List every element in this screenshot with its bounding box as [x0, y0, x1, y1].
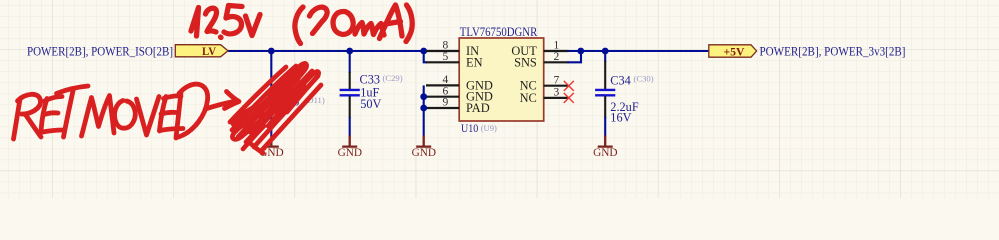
pin 6 GND stub: [426, 96, 459, 98]
svg-text:PAD: PAD: [466, 101, 490, 115]
ground: GND under C33: [338, 136, 363, 160]
svg-text:(C30): (C30): [634, 74, 654, 84]
svg-text:5: 5: [443, 51, 449, 63]
pin name IN: [466, 44, 479, 58]
pin number 5: [443, 51, 449, 63]
port +5V: [709, 44, 757, 58]
wire: SNS tie pin2 up to output net: [568, 51, 582, 62]
pin number 3: [554, 87, 560, 99]
pin name GND (pin 6): [466, 90, 493, 104]
svg-text:7: 7: [554, 74, 560, 86]
label: U10 alt designator (U9): [481, 123, 497, 133]
pin name EN: [466, 55, 483, 69]
wire: branch down to removed diode: [270, 51, 272, 136]
pin name SNS: [514, 55, 537, 69]
annotation: red handwriting 12.5V (70mA): [191, 5, 412, 44]
svg-text:POWER[2B], POWER_ISO[2B]: POWER[2B], POWER_ISO[2B]: [27, 44, 173, 58]
op-amp U10 body: [459, 38, 544, 121]
svg-text:U10: U10: [461, 123, 478, 135]
svg-text:POWER[2B], POWER_3v3[2B]: POWER[2B], POWER_3v3[2B]: [760, 44, 906, 58]
pin name NC (pin 3): [520, 91, 537, 105]
wire: EN tie from node to U10 pin 5: [424, 51, 427, 62]
label: C33 value 1uF: [360, 86, 379, 100]
capacitor C34: [595, 90, 615, 95]
svg-text:GND: GND: [593, 146, 618, 159]
pin: C34 pin stub top: [604, 61, 606, 89]
pin 9 PAD stub: [426, 107, 459, 109]
svg-text:GND: GND: [338, 146, 363, 159]
svg-text:LV: LV: [202, 44, 216, 58]
capacitor C33: [340, 90, 360, 95]
node: junction SNS tie: [577, 48, 584, 55]
svg-text:(U9): (U9): [481, 123, 497, 133]
label: U10 designator: [461, 123, 478, 135]
no-ERC cross on pin 3: [564, 93, 574, 103]
svg-text:3: 3: [554, 87, 560, 99]
pin 8 IN stub: [426, 50, 459, 52]
wire: main input net from port LV to U10 pin 8: [228, 50, 426, 52]
svg-text:C34: C34: [610, 74, 631, 88]
annotation: red scribble over removed diode: [230, 63, 321, 153]
label: C34 designator: [610, 74, 631, 88]
pin number 2: [554, 51, 560, 63]
pin 7 NC stub: [544, 85, 569, 87]
svg-text:8: 8: [443, 40, 449, 52]
svg-text:EN: EN: [466, 55, 483, 69]
svg-text:+5V: +5V: [724, 44, 745, 58]
annotation: red handwriting REMOVED with arrow: [14, 84, 240, 139]
svg-text:TLV76750DGNR: TLV76750DGNR: [460, 25, 538, 39]
svg-text:SNS: SNS: [514, 55, 537, 69]
svg-text:2: 2: [554, 51, 560, 63]
port LV: [175, 44, 228, 58]
wire: C34 to ground: [604, 117, 606, 137]
pin 1 OUT stub: [544, 50, 569, 52]
svg-text:16V: 16V: [610, 110, 631, 124]
node: junction at C33 branch: [346, 48, 353, 55]
label: U10 part number TLV76750DGNR: [460, 25, 538, 39]
svg-text:4: 4: [443, 74, 449, 86]
wire: output net pin1 to port +5V: [568, 50, 710, 52]
label: net name POWER[2B], POWER_3v3[2B]: [760, 44, 906, 58]
pin name NC (pin 7): [520, 79, 537, 93]
pin 2 SNS stub: [544, 61, 569, 63]
svg-text:NC: NC: [520, 91, 537, 105]
label: C33 alt designator (C29): [383, 73, 403, 83]
no-ERC cross on pin 7: [564, 81, 574, 91]
pin number 1: [554, 40, 560, 52]
pin: C33 pin stub top: [349, 72, 351, 89]
pin 5 EN stub: [426, 61, 459, 63]
pin 3 NC stub: [544, 97, 569, 99]
pin name PAD: [466, 101, 490, 115]
svg-text:9: 9: [443, 97, 449, 109]
pin number 8: [443, 40, 449, 52]
label: C34 voltage 16V: [610, 110, 631, 124]
pin number 4: [443, 74, 449, 86]
svg-text:GND: GND: [412, 146, 437, 159]
svg-text:50V: 50V: [360, 97, 381, 111]
svg-text:1: 1: [554, 40, 560, 52]
pin number 9: [443, 97, 449, 109]
wire: C33 to ground: [349, 117, 351, 137]
ground: GND under C34: [593, 136, 618, 160]
pin 4 GND stub: [426, 84, 459, 86]
label: C34 alt designator (C30): [634, 74, 654, 84]
node: junction pin6 tie: [420, 93, 427, 100]
pin number 7: [554, 74, 560, 86]
label: removed diode designator remnant 6: [293, 95, 299, 109]
svg-text:C33: C33: [360, 73, 381, 87]
label: net name POWER[2B], POWER_ISO[2B]: [27, 44, 173, 58]
svg-text:(C29): (C29): [383, 73, 403, 83]
pin name OUT: [511, 44, 537, 58]
wire: ground tie for pins 4,6,9: [423, 85, 425, 136]
pin: C33 pin stub bottom: [349, 96, 351, 118]
node: junction at removed diode branch: [268, 48, 275, 55]
wire: branch down to C34: [604, 51, 606, 62]
ground: GND under removed diode: [259, 136, 284, 160]
pin name GND (pin 4): [466, 78, 493, 92]
svg-text:6: 6: [443, 85, 449, 97]
pin number 6: [443, 85, 449, 97]
pin: C34 pin stub bottom: [604, 96, 606, 118]
ground: GND under U10 pins: [412, 136, 437, 160]
wire: branch down to C33: [349, 51, 351, 73]
node: junction at EN tie: [420, 48, 427, 55]
label: C34 value 2.2uF: [610, 100, 639, 114]
label: removed diode alt designator (D11): [305, 95, 325, 105]
node: junction C34 branch: [602, 48, 609, 55]
label: C33 voltage 50V: [360, 97, 381, 111]
label: C33 designator: [360, 73, 381, 87]
node: junction pin9 tie: [420, 105, 427, 112]
